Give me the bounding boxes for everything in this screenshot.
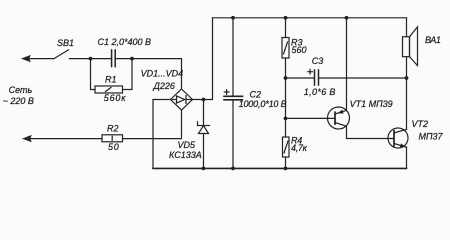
svg-text:ВА1: ВА1 [425,35,441,45]
svg-text:VD5: VD5 [178,140,197,150]
resistor R2 [102,135,123,142]
diode symbol inside bridge [173,99,177,101]
label C2 polarity plus [224,91,229,93]
resistor R3 [285,18,287,38]
transistor VT1 [328,107,350,129]
svg-text:~ 220 В: ~ 220 В [3,96,34,106]
resistor R1 [95,86,123,93]
wire down to bridge top [181,59,183,89]
label C3 polarity plus [308,71,313,73]
wire plus rail top [213,17,407,19]
svg-text:МП37: МП37 [419,131,444,141]
transistor VT2 [388,128,408,148]
wire R1 left leg [91,59,96,90]
speaker BA1 [406,18,408,37]
node R4 bottom junction [284,167,288,171]
node mains bottom arrow [22,135,32,142]
svg-text:1000,0*10 В: 1000,0*10 В [239,99,287,109]
svg-text:КС133А: КС133А [169,150,202,160]
wire VT2 emitter [394,144,407,148]
wire VT1 base lead [286,117,336,119]
capacitor C1 [111,50,113,67]
resistor R4 [283,137,290,157]
svg-text:C3: C3 [312,56,324,66]
wire R3 to node A [285,58,287,137]
node VD5 bottom junction [202,167,206,171]
wire mains bottom lead [28,138,102,140]
wire R1 right leg [123,59,133,90]
node A junction C1 left [89,57,93,61]
svg-text:VT1 МП39: VT1 МП39 [350,99,393,109]
wire bridge minus output [153,100,171,169]
zener diode VD5 [203,100,205,126]
svg-text:C2: C2 [250,90,262,100]
svg-text:VT2: VT2 [412,119,429,129]
svg-text:SB1: SB1 [57,38,74,48]
capacitor C2 [232,18,234,97]
node B junction C1 right [130,57,134,61]
wire bridge plus output [193,18,213,100]
node C2 top junction [231,16,235,20]
wire node A to C3 [286,77,315,79]
svg-text:50: 50 [108,142,120,152]
wire VT1 emitter [335,110,347,114]
wire VT1 collector to VT2 base [335,123,347,127]
node C2 bottom junction [231,167,235,171]
node bridge plus / VD5 junction [202,98,206,102]
node R3 top junction [284,16,288,20]
svg-text:Сеть: Сеть [9,85,33,95]
svg-text:C1 2,0*400 В: C1 2,0*400 В [98,37,152,47]
wire SB1 to C1 [70,58,112,60]
wire VT2 collector [394,129,407,133]
node mains top arrow [21,55,31,62]
svg-text:R1: R1 [105,74,117,84]
node C3/R3 junction [284,76,288,80]
wire ground rail bottom [153,167,407,169]
svg-text:560: 560 [292,45,307,55]
capacitor C3 [314,70,316,85]
wire mains top lead [27,58,54,60]
wire R2 to bridge bottom [123,110,182,139]
diode bridge VD1-VD4 [171,89,193,110]
svg-text:4,7к: 4,7к [291,143,308,153]
switch SB1 [54,50,69,59]
svg-text:Д226: Д226 [153,81,175,91]
node speaker/C3/VT2 collector junction [405,76,409,80]
wire C3 to speaker node [319,77,407,79]
svg-text:560к: 560к [104,93,126,103]
wire C1 to bridge corner [116,58,182,60]
svg-text:R2: R2 [107,123,119,133]
node VT1 emitter rail junction [345,16,349,20]
svg-text:1,0*6 В: 1,0*6 В [304,87,336,97]
svg-text:VD1...VD4: VD1...VD4 [141,69,184,79]
node VT1 base junction [284,117,288,121]
